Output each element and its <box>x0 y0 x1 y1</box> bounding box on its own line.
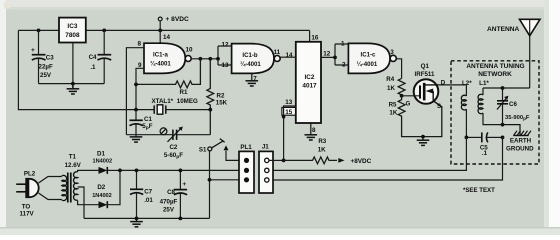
wire: secondary bottom to D2 <box>78 200 99 204</box>
diode D2 1N4002 <box>92 170 120 208</box>
transistor Q1 IRF511 <box>402 63 446 110</box>
svg-text:¼-4001: ¼-4001 <box>240 61 261 68</box>
node: C6 bottom junction <box>501 123 505 127</box>
svg-text:1K: 1K <box>389 110 397 117</box>
svg-text:C4: C4 <box>89 54 97 61</box>
wire: IC1-a output <box>191 46 231 65</box>
wire: J1 pin 1 to R3 <box>269 159 284 161</box>
wire: IC1-b output to IC2 pin 14 <box>280 56 296 58</box>
wire: secondary center tap <box>78 187 84 218</box>
wire: ground rail <box>84 217 210 219</box>
pin 15 label IC2 boxed <box>282 107 296 116</box>
earth ground symbol <box>503 125 532 136</box>
svg-text:¼-4001: ¼-4001 <box>150 61 171 68</box>
node: C8 junctions <box>179 169 183 221</box>
svg-text:1N4002: 1N4002 <box>92 159 112 165</box>
antenna <box>487 19 540 88</box>
wire: IC2 pins 13 15 to R3 line <box>284 106 296 160</box>
svg-text:GROUND: GROUND <box>506 146 534 153</box>
ground under Q1 <box>417 137 430 146</box>
svg-text:C3: C3 <box>46 55 54 62</box>
capacitor C5 .1 <box>466 132 502 157</box>
svg-text:L2*: L2* <box>462 80 472 87</box>
svg-text:117V: 117V <box>20 211 35 218</box>
svg-text:5-60pF: 5-60pF <box>164 152 183 160</box>
capacitor C7 .01 <box>130 170 153 218</box>
wire: pin 8 feedback to C2 line <box>126 48 144 135</box>
svg-text:12: 12 <box>323 50 331 57</box>
wire: plug to transformer primary <box>39 177 59 200</box>
svg-text:11: 11 <box>274 49 281 56</box>
svg-text:C7: C7 <box>144 189 152 196</box>
svg-text:1N4002: 1N4002 <box>92 193 112 199</box>
capacitor C8 470uF 25V <box>160 170 187 218</box>
node: IC3 ground junction <box>71 82 75 86</box>
node: rail junction dots <box>37 29 163 33</box>
svg-text:IRF511: IRF511 <box>415 71 436 78</box>
node: C6 top junction <box>501 86 505 90</box>
diode D1 1N4002 <box>92 150 120 174</box>
op-amp gate IC1-c 1/4-4001 <box>348 43 396 73</box>
resistor R5 1K <box>389 96 442 137</box>
svg-text:+8VDC: +8VDC <box>351 158 372 165</box>
capacitor C1 5pF <box>130 110 153 137</box>
svg-text:12: 12 <box>222 42 230 49</box>
svg-text:¼-4001: ¼-4001 <box>357 61 378 68</box>
ground under C1 <box>130 137 143 142</box>
capacitor C3 22uF 25V <box>31 30 54 83</box>
svg-text:25V: 25V <box>40 72 52 79</box>
svg-text:C6: C6 <box>509 101 517 108</box>
wire: J1 ground line to earth node <box>269 137 503 180</box>
svg-text:15: 15 <box>285 109 293 116</box>
op-amp gate IC1-b 1/4-4001 <box>232 44 281 74</box>
transformer T1 12.6V <box>59 154 82 203</box>
svg-text:+: + <box>183 181 187 188</box>
svg-text:470µF: 470µF <box>160 198 178 205</box>
capacitor C4 .1 <box>89 30 112 83</box>
regulator IC3 7808 <box>59 18 86 84</box>
svg-text:IC1-c: IC1-c <box>361 52 377 59</box>
svg-text:35-900pF: 35-900pF <box>505 115 530 121</box>
svg-text:G: G <box>406 101 411 108</box>
svg-text:R4: R4 <box>386 76 394 83</box>
ground pin 8 IC2 <box>305 123 318 140</box>
wire: ground rail riser to PL1 <box>210 180 245 219</box>
svg-text:10MEG: 10MEG <box>177 98 198 105</box>
svg-text:15K: 15K <box>216 99 228 106</box>
svg-text:16: 16 <box>311 35 319 42</box>
node: source ground junction <box>421 135 425 139</box>
svg-text:C2: C2 <box>169 144 177 151</box>
svg-text:TO: TO <box>22 203 31 210</box>
resistor R4 1K <box>386 76 405 96</box>
inductor L2 <box>461 80 472 138</box>
svg-text:PL2: PL2 <box>24 171 36 178</box>
wire: IC2 pin 12 to IC1-c inputs <box>321 44 348 65</box>
svg-text:EARTH: EARTH <box>510 138 532 145</box>
svg-text:PL1: PL1 <box>240 144 252 151</box>
svg-text:.01: .01 <box>144 197 153 204</box>
node: R3 junction <box>282 159 286 163</box>
svg-text:22µF: 22µF <box>39 63 53 70</box>
antenna tuning network dashed box <box>451 61 539 164</box>
wire: J1 supply line to L2 bottom <box>269 137 466 170</box>
ground under IC3 <box>67 84 80 94</box>
svg-text:+ 8VDC: + 8VDC <box>166 16 190 23</box>
svg-text:T1: T1 <box>69 154 77 161</box>
wire: pin 9 to crystal node <box>136 68 144 109</box>
svg-text:13: 13 <box>285 99 293 106</box>
svg-text:8: 8 <box>312 127 316 134</box>
svg-text:R3: R3 <box>318 138 326 145</box>
ground under rail <box>130 218 143 226</box>
svg-text:IC1-b: IC1-b <box>242 52 258 59</box>
ground pin 7 IC1-b <box>246 73 259 86</box>
switch S1 <box>199 139 239 180</box>
svg-text:R5: R5 <box>389 101 397 108</box>
node: rectifier junction <box>118 169 122 173</box>
svg-text:1K: 1K <box>387 85 395 92</box>
node: C7 junctions <box>135 169 139 221</box>
resistor R1 10MEG <box>134 59 200 96</box>
svg-text:C8: C8 <box>167 189 175 196</box>
svg-text:4017: 4017 <box>302 83 317 90</box>
svg-text:10: 10 <box>186 46 194 53</box>
connector PL1 <box>239 144 254 193</box>
crystal XTAL1 <box>136 98 210 114</box>
counter IC2 4017 <box>296 42 321 123</box>
svg-text:3: 3 <box>390 49 394 56</box>
svg-text:D2: D2 <box>97 184 105 191</box>
wire: IC1-c output to gate divider <box>396 59 401 79</box>
svg-text:25V: 25V <box>163 207 175 214</box>
svg-text:S: S <box>437 103 441 110</box>
svg-text:J1: J1 <box>262 144 269 151</box>
svg-text:R2: R2 <box>217 92 225 99</box>
wire: secondary top to D1 <box>78 170 99 172</box>
svg-text:1K: 1K <box>318 146 326 153</box>
node: C5 junctions <box>465 136 505 140</box>
svg-text:IC2: IC2 <box>305 74 315 81</box>
svg-text:7808: 7808 <box>65 32 80 39</box>
svg-text:D1: D1 <box>97 150 105 157</box>
svg-text:+: + <box>31 47 35 54</box>
inductor L1 <box>478 80 502 125</box>
node: gate junction <box>400 94 404 98</box>
svg-text:*SEE TEXT: *SEE TEXT <box>463 187 495 194</box>
svg-text:NETWORK: NETWORK <box>478 71 512 78</box>
resistor R2 15K <box>207 59 228 135</box>
wire: IC3 ground bus <box>39 83 105 85</box>
svg-text:IC3: IC3 <box>67 23 77 30</box>
svg-text:12.6V: 12.6V <box>65 162 82 169</box>
svg-text:14: 14 <box>286 52 294 59</box>
capacitor C2 5-60pF trimmer <box>126 127 210 161</box>
wire: drain to L2 <box>438 84 466 86</box>
svg-text:ANTENNA TUNING: ANTENNA TUNING <box>466 63 524 70</box>
svg-text:XTAL1*: XTAL1* <box>152 98 174 105</box>
svg-text:L1*: L1* <box>479 80 489 87</box>
wire: rectifier output bus <box>120 169 244 171</box>
node: crystal junctions <box>134 108 212 112</box>
node: S1 bottom junction <box>208 178 212 182</box>
svg-text:1: 1 <box>341 41 345 48</box>
svg-text:R1: R1 <box>180 89 188 96</box>
svg-text:2: 2 <box>342 62 346 69</box>
svg-text:Q1: Q1 <box>421 63 430 70</box>
svg-text:8: 8 <box>137 40 141 47</box>
resistor R3 1K <box>284 138 372 165</box>
capacitor C6 35-900pF variable <box>497 88 530 125</box>
connector J1 <box>259 144 273 194</box>
plug PL2 <box>16 171 39 218</box>
svg-text:14: 14 <box>163 34 171 41</box>
svg-text:13: 13 <box>222 62 230 69</box>
svg-text:S1: S1 <box>199 147 207 154</box>
svg-text:C1: C1 <box>144 116 152 123</box>
op-amp gate IC1-a 1/4-4001 <box>144 30 191 73</box>
wire: unregulated input rail / left loop <box>18 30 309 109</box>
wire: antenna feed to L1 and C6 <box>483 88 530 95</box>
node: output junctions <box>199 57 220 61</box>
terminal +8VDC <box>158 16 189 30</box>
svg-text:IC1-a: IC1-a <box>153 51 169 58</box>
svg-text:ANTENNA: ANTENNA <box>487 26 519 33</box>
svg-text:.1: .1 <box>482 150 488 157</box>
svg-text:.1: .1 <box>90 64 96 71</box>
